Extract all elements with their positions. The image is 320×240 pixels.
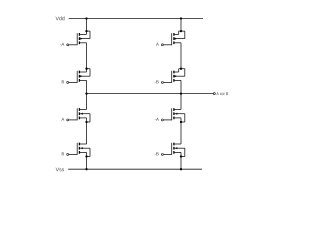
wire Q5 source to Q6 drain xyxy=(86,118,88,144)
wire output node to Q5 drain xyxy=(86,94,88,110)
Q5 channel xyxy=(79,108,80,111)
Q4 channel xyxy=(173,71,174,74)
bulk corner jog of Q6 xyxy=(87,156,91,158)
transistor Q2 PMOS gate B xyxy=(62,68,90,84)
bulk corner jog of Q5 xyxy=(87,121,91,123)
source stub of Q3 xyxy=(174,42,181,44)
wire Q6 source to Vss xyxy=(86,152,88,169)
gate bar of Q8 xyxy=(171,143,173,155)
source stub of Q4 xyxy=(174,79,181,81)
input label -B xyxy=(155,152,159,155)
drain vertical jog of Q4 xyxy=(178,69,180,72)
bulk vertical of Q8 xyxy=(184,148,186,156)
source stub of Q7 xyxy=(174,117,181,119)
gate bar of Q7 xyxy=(171,108,173,120)
drain stub of Q1 xyxy=(79,33,86,35)
bulk stub of Q5 xyxy=(79,113,90,115)
gate terminal circle of Q6 xyxy=(67,153,69,155)
junction dot where bulk meets source of Q7 xyxy=(180,121,182,123)
wire Q3 source to Q4 corner xyxy=(180,43,182,69)
wire Vdd to Q1 drain xyxy=(86,19,88,35)
drain stub of Q3 xyxy=(174,33,179,35)
gate wire of Q5 xyxy=(69,119,77,121)
junction dot at bulk corner of Q3 xyxy=(180,30,182,32)
wire Q7 source to Q8 drain xyxy=(180,118,182,144)
Q8 channel xyxy=(173,143,174,146)
gate bar of Q6 xyxy=(76,143,78,155)
transistor Q3 PMOS gate A xyxy=(156,30,185,46)
Q5 bulk arrow xyxy=(80,113,83,115)
gate terminal circle of Q7 xyxy=(161,119,163,121)
input label -A xyxy=(60,43,64,46)
bulk stub of Q8 xyxy=(174,147,185,149)
wire output node to Q7 drain xyxy=(180,94,182,110)
input label -A xyxy=(155,118,159,121)
junction dot where bulk meets source of Q6 xyxy=(85,155,87,157)
bulk vertical of Q5 xyxy=(89,114,91,122)
bulk stub of Q1 xyxy=(79,38,90,40)
Q2 bulk arrow xyxy=(80,75,83,77)
gate bar of Q3 xyxy=(171,33,173,45)
gate terminal circle of Q1 xyxy=(67,44,69,46)
bulk corner jog of Q7 xyxy=(181,121,185,123)
junction dot output / right branch xyxy=(180,92,182,94)
bulk corner jog of Q8 xyxy=(181,156,185,158)
gate terminal circle of Q8 xyxy=(161,153,163,155)
source stub of Q2 xyxy=(79,79,86,81)
gate wire of Q3 xyxy=(164,44,172,46)
bulk vertical of Q4 xyxy=(184,69,186,77)
transistor Q7 NMOS gate -A xyxy=(155,108,185,123)
gate wire of Q1 xyxy=(69,44,77,46)
gate bar of Q2 xyxy=(76,71,78,83)
gate bar of Q4 xyxy=(171,71,173,83)
wire Q2 source to output node xyxy=(86,80,88,93)
junction dot Vdd / left branch xyxy=(85,17,87,19)
transistor Q1 PMOS gate -A xyxy=(60,30,90,46)
gate bar of Q1 xyxy=(76,33,78,45)
junction dot where bulk meets source of Q8 xyxy=(180,155,182,157)
Q4 bulk arrow xyxy=(175,75,178,77)
Q7 channel xyxy=(173,108,174,111)
junction dot Vss / left branch xyxy=(85,168,87,170)
transistor Q6 NMOS gate B xyxy=(62,143,90,158)
source stub of Q6 xyxy=(79,151,86,153)
Q8 bulk arrow xyxy=(175,147,178,149)
Q6 bulk arrow xyxy=(80,147,83,149)
transistor Q8 NMOS gate -B xyxy=(155,143,185,158)
gate wire of Q2 xyxy=(69,81,77,83)
junction dot at bulk corner of Q4 xyxy=(180,68,182,70)
input label -B xyxy=(155,80,159,83)
bulk stub of Q3 xyxy=(174,38,185,40)
Vss power rail xyxy=(68,168,202,170)
junction dot Vss / right branch xyxy=(180,168,182,170)
source stub of Q8 xyxy=(174,151,181,153)
junction dot Vdd / right branch xyxy=(180,17,182,19)
bulk corner jog of Q2 xyxy=(87,68,91,70)
Q1 bulk arrow xyxy=(80,38,83,40)
gate terminal circle of Q3 xyxy=(161,44,163,46)
Q1 channel xyxy=(79,33,80,36)
bulk vertical of Q2 xyxy=(89,69,91,77)
Q3 channel xyxy=(173,33,174,36)
input label B xyxy=(62,152,64,155)
source stub of Q5 xyxy=(79,117,86,119)
drain stub of Q4 xyxy=(174,71,179,73)
wire Q4 source to output node xyxy=(180,80,182,93)
bulk vertical of Q6 xyxy=(89,148,91,156)
bulk corner jog of Q4 xyxy=(179,68,185,70)
Q2 channel xyxy=(79,71,80,74)
junction dot at bulk corner of Q2 xyxy=(85,68,87,70)
gate wire of Q4 xyxy=(164,81,172,83)
gate wire of Q8 xyxy=(164,153,172,155)
gate terminal circle of Q4 xyxy=(161,81,163,83)
bulk vertical of Q1 xyxy=(89,31,91,38)
gate wire of Q6 xyxy=(69,153,77,155)
input label A xyxy=(61,118,64,121)
junction dot at bulk corner of Q1 xyxy=(85,30,87,32)
junction dot where bulk meets source of Q5 xyxy=(85,121,87,123)
drain stub of Q8 xyxy=(174,143,181,145)
input label A xyxy=(156,43,159,46)
gate bar of Q5 xyxy=(76,108,78,120)
source stub of Q1 xyxy=(79,42,86,44)
Q6 channel xyxy=(79,143,80,146)
transistor Q4 PMOS gate -B xyxy=(155,68,185,84)
Q7 bulk arrow xyxy=(175,113,178,115)
drain stub of Q2 xyxy=(79,71,86,73)
drain stub of Q6 xyxy=(79,143,86,145)
bulk stub of Q4 xyxy=(174,75,185,77)
bulk corner jog of Q3 xyxy=(179,30,185,32)
gate terminal circle of Q5 xyxy=(67,119,69,121)
bulk vertical of Q7 xyxy=(184,114,186,122)
Vdd power rail xyxy=(69,18,203,20)
bulk vertical of Q3 xyxy=(184,31,186,38)
Vss label xyxy=(56,168,64,172)
bulk stub of Q7 xyxy=(174,113,185,115)
Vdd label xyxy=(56,16,65,20)
wire Vdd to Q3 corner xyxy=(180,19,182,32)
output wire A xor B xyxy=(87,93,214,95)
gate wire of Q7 xyxy=(164,119,172,121)
Q3 bulk arrow xyxy=(175,38,178,40)
bulk corner jog of Q1 xyxy=(87,30,91,32)
bulk stub of Q2 xyxy=(79,75,90,77)
output terminal circle xyxy=(213,93,215,95)
drain stub of Q7 xyxy=(174,109,181,111)
bulk stub of Q6 xyxy=(79,147,90,149)
transistor Q5 NMOS gate A xyxy=(61,108,90,123)
gate terminal circle of Q2 xyxy=(67,81,69,83)
output label A xor B xyxy=(216,92,228,95)
wire Q8 source to Vss xyxy=(180,152,182,169)
wire Q1 source to Q2 drain xyxy=(86,43,88,72)
drain vertical jog of Q3 xyxy=(178,31,180,34)
drain stub of Q5 xyxy=(79,109,86,111)
input label B xyxy=(62,80,64,83)
junction dot output / left branch xyxy=(85,92,87,94)
